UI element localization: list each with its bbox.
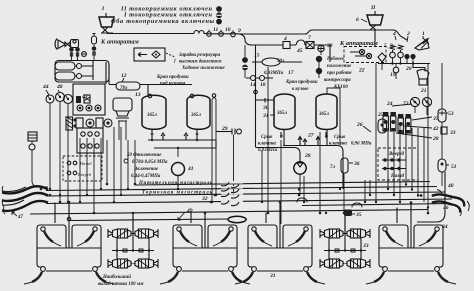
dashed box compressor group [344,47,386,63]
text 0,93MPa near 17 [264,70,294,76]
tank 36 (7l) [330,158,360,213]
text кран продувки под кузовом [156,75,189,87]
brake block 1 [24,225,114,284]
right horn [415,38,429,50]
reverser dashed box [378,148,418,180]
break marks [201,181,243,206]
tank T1 365l [142,95,166,140]
junction dots [40,183,430,215]
brake block 3 [235,225,325,284]
right comb verticals [388,63,428,213]
left horn [55,39,65,50]
small cylinder b [55,72,82,80]
tank T3 365l [262,94,295,138]
items 11 10 9 on top line [207,27,241,37]
right valve cluster [383,112,439,142]
crane 17 box [134,48,175,61]
items 4 45 7 on y45 line [283,35,330,62]
item 33 right [441,127,456,136]
horn valve X [65,42,70,47]
circle 28 [256,148,311,196]
text выход штока [98,274,144,287]
pantograph I [99,6,114,33]
magistral labels [138,181,213,196]
filter item left [28,132,48,187]
tanks T1 T2 bottom manifold [148,133,216,157]
item 53 [438,109,454,122]
right hoses [417,172,469,222]
T3 T4 bottom manifold [283,130,343,190]
top bus line [107,30,407,45]
left direction box [63,156,102,181]
left manifold box [73,84,105,115]
pipe loop ellipse [70,219,247,221]
pressure switch text 50 [124,153,168,179]
brake block 4 [366,225,456,284]
indicator circles right x316 [316,43,333,78]
right cluster top labels [384,31,425,49]
text Рабочее положение [324,57,365,90]
right capsule valve [92,33,97,60]
text кран продувки в кузове [285,80,318,92]
right gauges [386,97,432,115]
brake cylinders cluster right [320,216,370,269]
item 35 [344,210,362,219]
left safety valve box [69,40,80,61]
bus lines [30,182,452,215]
pipe into T3 from x252 [256,45,275,148]
item 29 [216,126,241,195]
small cylinder a [55,62,82,70]
top annotation text block [111,6,222,25]
mid verticals [212,63,442,224]
union circle [82,52,87,57]
left hoses [2,186,48,220]
vertical drop lines from left cluster [50,102,135,213]
brake block 2 [160,225,250,284]
gauges 44 48 [42,84,73,104]
manifold valves below box [66,117,112,154]
tank 12 (78l) [116,73,140,91]
brake cylinders cluster left [108,216,158,269]
text Срыв клапана 0,93МПа [258,135,278,153]
tank T4 365l [316,94,337,138]
feeds to bottom [55,202,411,248]
collector housing [55,61,109,83]
pantograph II [356,5,383,46]
item 25 [377,112,387,133]
pipe from 78l to tank1 [106,62,192,95]
tank 15 (50l) [252,53,302,67]
text Срыв клапана 0,96МПа [329,122,372,147]
indicator circles column x236 [242,45,248,78]
item 51 [438,122,457,186]
text Зарядка резервуара [173,53,225,71]
items 14 18 [246,76,273,89]
valve on left branch [378,53,386,70]
right collector [378,63,430,65]
item 30 valve on pipe [265,98,268,103]
right spring valves [390,45,416,64]
compressor circle 41 [172,163,194,190]
item 13 [113,92,141,140]
tank T2 365l [187,95,210,140]
wires from cylinders [81,60,93,80]
items 19 20 21 [390,64,429,95]
